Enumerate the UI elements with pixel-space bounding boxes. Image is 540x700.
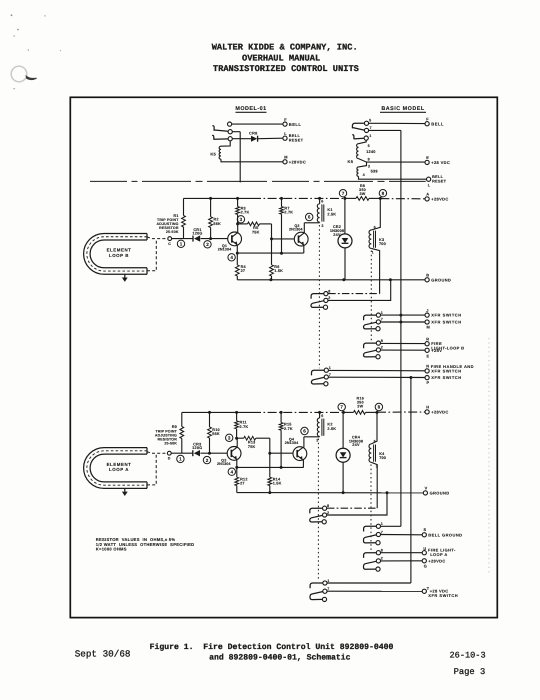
svg-text:1: 1 [329, 366, 331, 370]
resistor R5 75K [238, 223, 248, 225]
wire trip point to CR3 [171, 452, 192, 454]
contact set K4-b pins 8/2 [376, 551, 380, 555]
contact set K4-a pins 1/7 [376, 524, 380, 528]
svg-text:and 892809-0400-01, Schematic: and 892809-0400-01, Schematic [209, 654, 351, 663]
loop A sheath ground arrow [124, 488, 126, 491]
svg-text:2: 2 [327, 511, 329, 515]
junction contact ground drop [389, 278, 392, 281]
resistor R12 27 [236, 467, 238, 477]
resistor R15 2.7K [280, 412, 282, 422]
node 3 lower [226, 434, 233, 441]
svg-text:+28VDC: +28VDC [431, 197, 448, 202]
diode CR3 120G [192, 450, 194, 456]
faint scan fold line [488, 338, 490, 575]
terminal L BELL RESET (MODEL-01) [283, 136, 287, 140]
svg-text:75K: 75K [252, 230, 260, 234]
svg-text:1: 1 [327, 579, 329, 583]
wire R13 down to Q4 base node [269, 438, 271, 453]
relay coil K4 700 [371, 412, 377, 444]
element loop B [84, 234, 147, 275]
wire contact 2 to G terminal [381, 560, 423, 562]
node 8 lower [375, 403, 382, 410]
terminal S BELL GROUND [422, 533, 426, 537]
svg-text:Sept 30/68: Sept 30/68 [75, 649, 131, 660]
svg-text:2.7K: 2.7K [240, 425, 249, 429]
junction R7 emitter rail [280, 252, 283, 255]
wire contact 1 to P bus end [327, 582, 411, 584]
svg-text:27: 27 [240, 482, 245, 486]
wire contact 1 to N terminal [329, 369, 425, 371]
resistor R7 2.7K [281, 198, 283, 206]
svg-text:MODEL-01: MODEL-01 [235, 106, 266, 112]
svg-text:BASIC MODEL: BASIC MODEL [381, 106, 424, 112]
wire emitter rail upper [237, 252, 303, 254]
svg-text:P: P [427, 380, 430, 385]
zener diode CR4 1N3009 24V [342, 412, 344, 448]
node 6 lower [301, 427, 308, 434]
svg-text:M: M [284, 155, 287, 160]
junction R15 emitter rail [280, 466, 283, 469]
wire pin 7 to transfer bus [369, 129, 401, 131]
contact set K3-a pins 1/7 [376, 313, 380, 317]
junction Q3 emitter R12 [235, 466, 238, 469]
wire pin 4 to BELL RESET terminal (BASIC) [359, 176, 427, 179]
resistor R6 1.5K [270, 265, 274, 276]
svg-text:6: 6 [321, 414, 323, 418]
node 4 upper [228, 254, 235, 261]
wire emitter rail lower [237, 466, 304, 468]
wire loop A to trip point (dashed) [147, 452, 167, 453]
wire +28VDC rail upper dashdot left [252, 197, 345, 199]
junction rail R10 [208, 411, 211, 414]
node 2 upper [204, 241, 211, 248]
svg-text:56K: 56K [213, 222, 221, 226]
svg-text:1: 1 [372, 250, 374, 254]
svg-text:2N1304: 2N1304 [217, 462, 231, 466]
junction rail R15 [280, 411, 283, 414]
junction rail K2 [318, 411, 321, 414]
svg-text:E: E [426, 155, 429, 160]
relay K5 contact arm a (MODEL-01) [228, 122, 232, 126]
resistor R14 1.5K [268, 477, 272, 485]
svg-text:7: 7 [329, 373, 331, 377]
svg-text:RESET: RESET [289, 137, 304, 142]
svg-text:24V: 24V [352, 443, 360, 447]
wire +28VDC rail upper solid part [184, 197, 253, 199]
node 1 lower [177, 455, 184, 462]
relay coil K5 lower winding 539 (BASIC) [359, 162, 367, 167]
svg-text:700: 700 [379, 242, 386, 246]
svg-text:2N1304: 2N1304 [289, 228, 303, 232]
junction R11 collector [235, 437, 238, 440]
svg-text:E: E [427, 354, 430, 359]
junction rail R11 [235, 411, 238, 414]
svg-text:4: 4 [363, 173, 366, 177]
wire contact-c to CR8 [233, 138, 253, 140]
transfer bus from P wire (vertical) [410, 378, 412, 584]
junction R14 ground [268, 491, 271, 494]
wire ground rail lower [237, 492, 423, 494]
svg-text:2: 2 [381, 557, 383, 561]
wire trip point to CR1 [172, 238, 193, 240]
svg-text:1: 1 [180, 242, 183, 247]
svg-text:700: 700 [379, 456, 386, 460]
diode CR1 120G [192, 236, 194, 242]
svg-text:M: M [427, 325, 430, 330]
terminal N FIRE HANDLE AND XFR SWITCH [425, 369, 429, 373]
wire K4 pin 3 down to contact [371, 462, 377, 508]
svg-text:K=1000 OHMS: K=1000 OHMS [96, 546, 127, 551]
svg-text:8: 8 [381, 339, 383, 343]
svg-text:3: 3 [321, 224, 323, 228]
relay coil K5 (MODEL-01) [221, 141, 230, 146]
mechanical linkage K3 (dotted) [370, 251, 372, 342]
svg-text:4: 4 [230, 255, 233, 260]
svg-text:B: B [426, 272, 429, 277]
wire CR8 to bell reset terminal (MODEL-01) [258, 137, 283, 140]
wire contact 8 to K4 line [327, 507, 377, 509]
svg-text:6: 6 [308, 215, 311, 220]
wire bias divider down [271, 239, 273, 265]
wire K5 coil to +28VDC terminal (MODEL-01) [221, 159, 283, 162]
svg-text:K5: K5 [210, 151, 216, 156]
svg-text:J: J [426, 308, 428, 313]
svg-text:L: L [284, 131, 287, 136]
svg-text:RESET: RESET [432, 179, 447, 183]
terminal A +28VDC [425, 197, 429, 201]
svg-text:1.5K: 1.5K [273, 482, 282, 486]
svg-text:+28VDC: +28VDC [431, 410, 448, 415]
wire +28VDC rail lower solid part [182, 411, 252, 413]
junction R2 base [209, 237, 212, 240]
resistor R9 trip point adjusting 25-50K [181, 412, 183, 426]
junction contact ground drop lower [386, 491, 389, 494]
dashed chassis separator line [90, 180, 426, 182]
element loop A [84, 448, 147, 489]
terminal M +28VDC (MODEL-01) [283, 160, 287, 164]
svg-text:8: 8 [368, 158, 370, 162]
wire contact 2 to E terminal [381, 349, 425, 351]
zener diode CR2 1N3009 24V [344, 198, 346, 234]
relay coil K3 700 [371, 198, 380, 230]
svg-text:+28VDC: +28VDC [289, 159, 306, 164]
wire contact 7 to T terminal [327, 590, 422, 592]
terminal L BELL RESET (BASIC) [427, 177, 431, 181]
svg-text:2N1304: 2N1304 [218, 248, 232, 252]
svg-text:LOOP A: LOOP A [109, 467, 129, 472]
svg-text:3: 3 [240, 217, 243, 222]
terminal V GROUND [423, 491, 427, 495]
wire pin 5 to F BELL terminal (BASIC) [369, 122, 425, 124]
svg-text:2: 2 [328, 296, 330, 300]
svg-text:K2: K2 [327, 422, 332, 426]
svg-text:F: F [284, 117, 287, 122]
schematic border frame [70, 97, 497, 617]
junction bus J [399, 314, 402, 317]
junction rail K1 [318, 197, 321, 200]
terminal G +28VDC [422, 559, 426, 563]
svg-text:7: 7 [370, 126, 372, 130]
terminal E +28V [425, 348, 429, 352]
contact set K3-b pins 8/2 [376, 341, 380, 345]
wire bias divider down lower [269, 453, 271, 477]
svg-text:2.5K: 2.5K [327, 427, 336, 431]
svg-text:1: 1 [381, 311, 383, 315]
wire contact 2 to ground [328, 280, 391, 301]
node 2 lower [203, 456, 210, 463]
svg-text:+28V: +28V [431, 348, 442, 353]
wire pin 8 to E +28VDC terminal (BASIC) [359, 159, 425, 163]
svg-text:1: 1 [179, 457, 182, 462]
svg-text:Page 3: Page 3 [454, 667, 486, 677]
svg-text:24V: 24V [333, 233, 341, 237]
svg-text:27: 27 [241, 269, 246, 273]
svg-text:25-50K: 25-50K [166, 230, 179, 234]
junction rail R7 [280, 197, 283, 200]
relay K5 contact pin 5 with arm (BASIC) [364, 121, 368, 125]
node 7 lower [338, 403, 345, 410]
svg-text:6: 6 [303, 429, 306, 434]
resistor R2 56K [210, 198, 212, 216]
junction CR4 ground [342, 491, 345, 494]
wire contact 7 to S terminal [381, 534, 423, 536]
transfer bus from K5 pin 7 (vertical) [400, 130, 402, 526]
junction R3 collector [236, 222, 239, 225]
wire contact 7 to P terminal [329, 376, 425, 378]
svg-text:A: A [426, 192, 429, 197]
svg-text:LOOP A: LOOP A [430, 552, 448, 557]
svg-text:GROUND: GROUND [430, 491, 450, 496]
terminal E +28 VDC (BASIC) [425, 160, 429, 164]
wire contact 8 to K3 line (dashdot) [328, 293, 379, 295]
wire contact 8 to U terminal [381, 552, 423, 554]
wire contact-b down to separator [233, 131, 241, 133]
mechanical linkage K4 (dotted) [370, 464, 372, 552]
svg-text:7: 7 [340, 405, 343, 410]
terminal T +28VDC XFR SWITCH [422, 589, 426, 593]
junction CR2 ground [342, 278, 345, 281]
svg-text:H: H [426, 405, 429, 410]
svg-text:G: G [424, 564, 427, 569]
svg-text:XFR SWITCH: XFR SWITCH [428, 593, 458, 598]
svg-text:2: 2 [206, 458, 209, 463]
wire contact-a to bell terminal (MODEL-01) [232, 123, 283, 125]
node 6 upper [306, 213, 313, 220]
svg-text:7: 7 [381, 318, 383, 322]
junction Q2 base node [270, 237, 273, 240]
resistor R4 27 [236, 253, 238, 265]
svg-text:XFR SWITCH: XFR SWITCH [431, 375, 461, 380]
svg-text:2N1304: 2N1304 [285, 441, 299, 445]
contact set K2-b pins 1/7 [323, 581, 327, 585]
terminal F BELL (MODEL-01) [283, 122, 287, 126]
svg-text:U: U [423, 546, 426, 551]
svg-text:75K: 75K [248, 445, 256, 449]
node 1 upper [177, 240, 184, 247]
terminal M XFR SWITCH [425, 320, 429, 324]
svg-text:7: 7 [327, 587, 329, 591]
svg-text:120G: 120G [192, 446, 202, 450]
svg-text:BELL: BELL [289, 122, 302, 127]
svg-text:ELEMENT: ELEMENT [107, 462, 132, 467]
mechanical linkage K2 (dotted) [317, 439, 319, 582]
relay coil K2 2.5K [319, 412, 321, 418]
svg-text:TRANSISTORIZED CONTROL UNITS: TRANSISTORIZED CONTROL UNITS [213, 64, 359, 74]
contact set K1-a pins 8/2 [324, 292, 328, 296]
svg-text:CR8: CR8 [249, 132, 258, 136]
relay coil K5 upper winding 1240 (BASIC) [357, 144, 359, 159]
scan specks [11, 14, 13, 16]
relay K5 contact pin 1 with arm (BASIC) [364, 136, 368, 140]
resistor R13 75K [237, 437, 244, 439]
terminal D trip point [167, 451, 171, 455]
svg-text:BELL: BELL [431, 121, 444, 126]
wire Q4 collector to K2 [304, 436, 320, 438]
transistor Q2 2N1304 [294, 232, 308, 246]
loop A return (dashed) [147, 453, 156, 485]
junction rail R2 [209, 197, 212, 200]
svg-text:3W: 3W [359, 192, 365, 196]
svg-text:D: D [168, 457, 171, 461]
svg-text:6: 6 [374, 226, 376, 230]
terminal P XFR SWITCH [425, 376, 429, 380]
svg-text:XFR SWITCH: XFR SWITCH [431, 320, 461, 325]
junction rail R3 [236, 197, 239, 200]
svg-text:1.5K: 1.5K [274, 269, 283, 273]
svg-text:1240: 1240 [366, 149, 376, 154]
svg-text:V: V [425, 486, 428, 491]
node 7 upper [339, 190, 346, 197]
svg-text:26-10-3: 26-10-3 [450, 650, 486, 660]
scan artifact circle [11, 66, 27, 82]
junction bus P [409, 376, 412, 379]
junction bus M [399, 321, 402, 324]
junction R6 ground [269, 278, 272, 281]
wire loop B to trip point (dashed) [147, 237, 167, 239]
resistor R3 2.7K [237, 198, 239, 206]
wire pin 1 down to coil [359, 140, 367, 144]
resistor R16 350 3W [344, 411, 354, 413]
relay K5 contact pin 7 (BASIC) [364, 128, 368, 132]
svg-text:1: 1 [381, 522, 383, 526]
terminal C trip point [168, 237, 172, 241]
junction Q4 base node [268, 452, 271, 455]
svg-text:R: R [426, 336, 429, 341]
node 4 lower [228, 468, 235, 475]
svg-text:Figure 1. Fire Detection Cont: Figure 1. Fire Detection Control Unit 89… [150, 643, 394, 652]
svg-text:6: 6 [368, 144, 370, 148]
wire Q2 collector to K1 [304, 222, 319, 224]
svg-text:L: L [428, 184, 431, 188]
svg-text:BELL GROUND: BELL GROUND [428, 532, 462, 537]
svg-text:8: 8 [328, 289, 330, 293]
wire CR3 to Q3 base [200, 452, 227, 454]
transistor Q3 2N1304 [227, 447, 241, 461]
svg-text:8: 8 [327, 504, 329, 508]
relay K5 contact arm c (MODEL-01) [228, 137, 232, 141]
terminal H +28VDC [425, 410, 429, 414]
wire +28VDC rail lower dashdot right [377, 411, 425, 413]
svg-text:S: S [424, 527, 427, 532]
svg-text:+28VDC: +28VDC [428, 558, 445, 563]
relay K5 contact b (MODEL-01) [228, 130, 232, 134]
wire R5 down to Q2 base node [271, 224, 273, 239]
svg-text:8: 8 [378, 405, 381, 410]
svg-text:120G: 120G [192, 232, 202, 236]
svg-text:8: 8 [382, 191, 385, 196]
wire ground rail upper [237, 279, 425, 281]
junction R10 base [208, 452, 211, 455]
svg-text:F: F [426, 116, 429, 121]
wire CR1 to Q1 base [201, 238, 228, 240]
resistor R1 trip point adjusting 25-50K [183, 198, 185, 215]
svg-text:4: 4 [231, 469, 234, 474]
wire contact 1 to J terminal [381, 314, 425, 316]
transistor Q1 2N1304 [228, 232, 242, 246]
wire contact 2 to ground lower [327, 493, 387, 515]
svg-text:OVERHAUL MANUAL: OVERHAUL MANUAL [242, 53, 320, 63]
diode CR8 [251, 136, 257, 142]
terminal F BELL (BASIC) [425, 122, 429, 126]
svg-text:XFR SWITCH: XFR SWITCH [431, 313, 461, 318]
relay coil K1 2.5K [319, 198, 321, 203]
svg-text:2.7K: 2.7K [284, 211, 293, 215]
wire +28VDC rail upper dashdot right [380, 198, 425, 200]
loop B return (dashed) [147, 239, 156, 271]
svg-text:2: 2 [206, 242, 209, 247]
terminal U FIRE LIGHT-LOOP A [422, 551, 426, 555]
svg-text:+28 VDC: +28 VDC [431, 160, 450, 165]
svg-text:25-50K: 25-50K [164, 441, 177, 445]
contact set K1-b pins 1/7 [324, 368, 328, 372]
svg-text:7: 7 [381, 530, 383, 534]
svg-text:539: 539 [371, 168, 379, 173]
svg-text:8: 8 [381, 549, 383, 553]
svg-text:WALTER KIDDE & COMPANY, INC.: WALTER KIDDE & COMPANY, INC. [212, 43, 358, 53]
wire contact 7 to M terminal [381, 321, 425, 323]
node 8 upper [379, 190, 386, 197]
svg-text:LOOP B: LOOP B [109, 253, 129, 258]
junction rail node 8 lower [376, 411, 379, 414]
wire Q2 base [272, 238, 295, 240]
svg-text:2.7K: 2.7K [241, 211, 250, 215]
wire contact 8 to R terminal [381, 342, 425, 344]
junction rail node 8 upper [379, 197, 382, 200]
wire contact 1 to transfer bus end [381, 525, 401, 527]
wire Q4 base [270, 452, 293, 454]
svg-text:6: 6 [321, 200, 323, 204]
svg-text:C: C [168, 242, 171, 246]
resistor R8 350 3W [345, 197, 356, 199]
contact set K2-a pins 8/2 [323, 506, 327, 510]
terminal B GROUND [425, 278, 429, 282]
svg-text:N: N [426, 364, 429, 369]
junction rail node 7 lower [342, 411, 345, 414]
svg-text:3: 3 [228, 436, 231, 441]
svg-text:56K: 56K [212, 432, 220, 436]
svg-text:2.7K: 2.7K [284, 427, 293, 431]
svg-text:2.5K: 2.5K [327, 213, 336, 217]
mechanical linkage K1 (dotted) [318, 225, 320, 368]
wire +28VDC rail lower dashdot left [252, 411, 344, 413]
junction rail node 7 upper [343, 197, 346, 200]
svg-text:3W: 3W [357, 405, 363, 409]
svg-text:K5: K5 [348, 159, 354, 164]
svg-text:6: 6 [374, 440, 376, 444]
svg-text:5: 5 [369, 118, 371, 122]
wire K3 pin 1 down to contact [371, 248, 379, 293]
junction Q1 emitter R4 [236, 252, 239, 255]
